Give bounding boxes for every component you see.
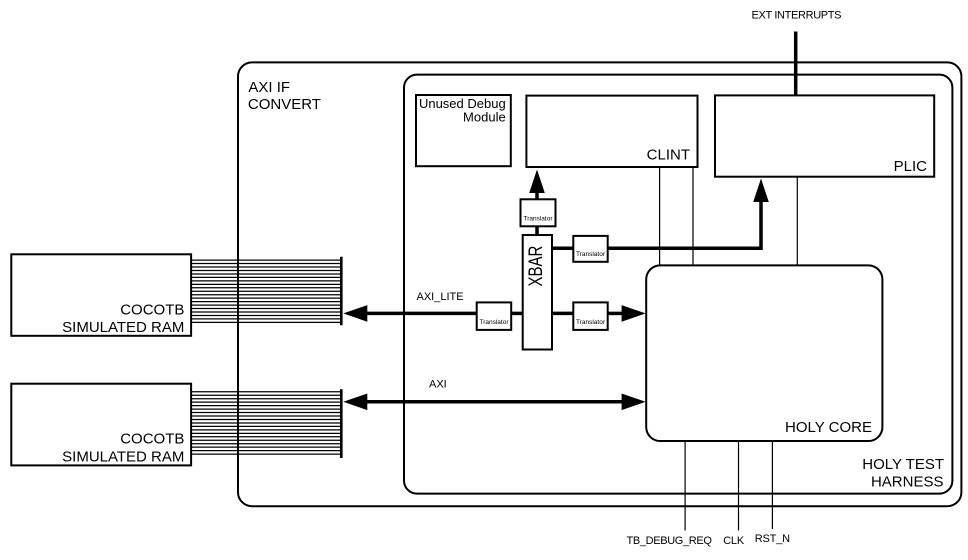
svg-text:EXT INTERRUPTS: EXT INTERRUPTS <box>752 9 842 21</box>
svg-text:Translator: Translator <box>576 251 606 258</box>
svg-text:HARNESS: HARNESS <box>871 473 944 490</box>
svg-text:HOLY CORE: HOLY CORE <box>785 419 872 436</box>
svg-text:Module: Module <box>463 109 506 124</box>
svg-text:HOLY TEST: HOLY TEST <box>862 456 944 473</box>
svg-text:TB_DEBUG_REQ: TB_DEBUG_REQ <box>627 535 713 547</box>
svg-text:CLINT: CLINT <box>647 146 690 163</box>
svg-text:COCOTB: COCOTB <box>120 431 184 448</box>
svg-text:AXI: AXI <box>429 378 447 390</box>
svg-text:SIMULATED RAM: SIMULATED RAM <box>62 319 184 336</box>
svg-text:Translator: Translator <box>576 319 606 326</box>
svg-text:SIMULATED RAM: SIMULATED RAM <box>62 448 184 465</box>
svg-text:RST_N: RST_N <box>755 533 790 545</box>
svg-text:CONVERT: CONVERT <box>248 96 321 113</box>
svg-text:AXI_LITE: AXI_LITE <box>417 291 464 303</box>
svg-text:COCOTB: COCOTB <box>120 301 184 318</box>
svg-text:Translator: Translator <box>523 216 553 223</box>
svg-text:Translator: Translator <box>479 319 509 326</box>
svg-text:AXI IF: AXI IF <box>248 79 290 96</box>
svg-text:XBAR: XBAR <box>524 246 546 287</box>
svg-text:PLIC: PLIC <box>894 158 928 175</box>
svg-text:CLK: CLK <box>723 535 745 547</box>
